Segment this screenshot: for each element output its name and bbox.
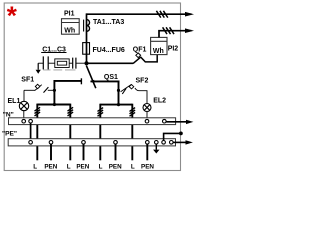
wire: feeder 2 outgoing line	[159, 31, 192, 38]
wire: PEN drop 2	[83, 144, 85, 160]
svg-text:"PE": "PE"	[2, 131, 17, 138]
svg-text:PEN: PEN	[109, 164, 122, 171]
svg-text:QF1: QF1	[133, 47, 147, 54]
wire: right distribution tee	[100, 104, 132, 106]
svg-text:FU4...FU6: FU4...FU6	[93, 47, 125, 54]
terminal PEN 4	[146, 141, 150, 145]
svg-text:PI2: PI2	[168, 45, 179, 52]
three-phase marks L drop 1	[35, 107, 41, 116]
arrow feeder 1	[185, 12, 194, 17]
svg-text:EL2: EL2	[153, 98, 166, 105]
svg-text:PEN: PEN	[76, 164, 89, 171]
svg-text:QS1: QS1	[104, 74, 118, 81]
svg-text:Wh: Wh	[64, 27, 75, 34]
wire: L drop 1	[36, 104, 38, 161]
three-phase marks feeder 2	[163, 27, 174, 34]
svg-text:SF2: SF2	[136, 78, 149, 85]
svg-text:PI1: PI1	[64, 10, 75, 17]
terminal bridge on PE	[29, 141, 33, 145]
fuse FU4...FU6	[83, 43, 90, 55]
svg-text:EL1: EL1	[8, 98, 21, 105]
wire: PEN drop 4	[146, 144, 148, 160]
svg-text:SF1: SF1	[21, 77, 34, 84]
terminal PE ground	[155, 141, 159, 145]
three-phase marks L drop 4	[130, 108, 136, 117]
terminal PE outgoing	[170, 141, 174, 145]
wire: N-PE bridge	[30, 123, 32, 141]
node: trunk junction	[85, 61, 89, 65]
wire: left distribution tee	[37, 104, 70, 106]
svg-text:Wh: Wh	[153, 48, 164, 55]
meter PI2	[151, 37, 167, 54]
wire: right bus	[91, 80, 120, 82]
wire: L drop 3	[99, 104, 101, 161]
wire: left phase drop	[53, 80, 55, 105]
svg-text:L: L	[99, 164, 103, 171]
three-phase marks feeder 1	[156, 11, 167, 18]
terminal bridge on N	[29, 119, 33, 123]
current transformer TA1...TA3	[84, 20, 90, 32]
terminal PEN 1	[49, 141, 53, 145]
terminal PEN 2	[82, 141, 86, 145]
svg-text:L: L	[67, 164, 71, 171]
svg-text:L: L	[131, 164, 135, 171]
wire: feeder 1 outgoing line	[87, 13, 192, 63]
wire: right phase drop	[118, 81, 120, 105]
terminal PE bond	[162, 141, 166, 145]
svg-text:*: *	[7, 0, 18, 30]
panel enclosure frame	[4, 3, 180, 171]
svg-text:PEN: PEN	[44, 164, 57, 171]
terminal EL1 on N	[22, 119, 26, 123]
wire: L drop 4	[131, 104, 133, 161]
wire: PE to enclosure bond	[164, 133, 181, 140]
svg-text:L: L	[33, 164, 37, 171]
ground on PE bar	[155, 144, 157, 150]
ground	[37, 63, 39, 69]
arrow feeder 2	[185, 28, 194, 33]
meter PI1	[62, 19, 80, 35]
wire: L drop 2	[69, 104, 71, 161]
three-phase marks L drop 3	[98, 108, 104, 117]
terminal PEN 3	[114, 141, 118, 145]
wire: N outgoing	[166, 121, 187, 123]
wire: PE outgoing	[173, 141, 186, 143]
wire: left bus	[54, 80, 81, 82]
svg-text:TA1...TA3: TA1...TA3	[93, 19, 124, 26]
three-phase marks L drop 2	[68, 107, 74, 116]
terminal EL2 on N	[145, 119, 149, 123]
node SF2 tap	[117, 89, 120, 92]
wire: PEN drop 3	[115, 144, 117, 160]
circuit breaker QF1	[88, 62, 134, 64]
svg-text:PEN: PEN	[141, 164, 154, 171]
wire: PEN drop 1	[50, 144, 52, 160]
node SF1 tap	[53, 89, 56, 92]
terminal N outgoing	[163, 119, 167, 123]
